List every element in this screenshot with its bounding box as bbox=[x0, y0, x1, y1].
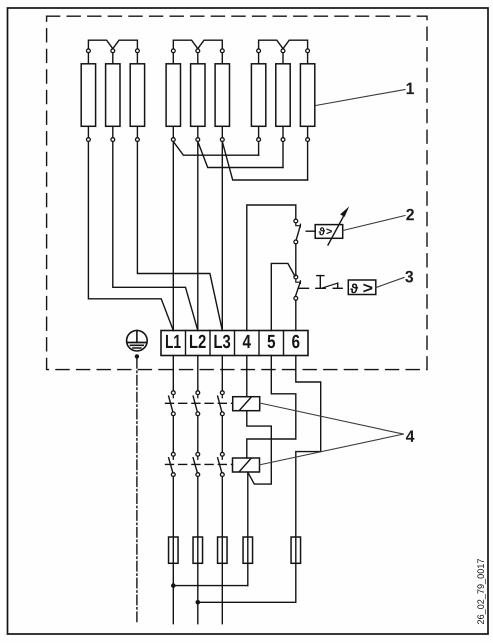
heating element E5 bbox=[191, 64, 205, 127]
wire top lead of element E7 bbox=[258, 53, 260, 64]
wire contact K2 down to bottom (L2 phase) bbox=[197, 477, 199, 624]
wire top lead of element E6 bbox=[221, 53, 223, 64]
fuse F2 bbox=[193, 537, 203, 563]
heating element E7 bbox=[251, 64, 265, 127]
terminal label L2 bbox=[190, 335, 206, 348]
node top terminal of element E5 bbox=[196, 49, 200, 53]
node top terminal of element E9 bbox=[306, 49, 310, 53]
wire top lead of element E5 bbox=[197, 53, 199, 64]
wire mechanical linkage of contactor K1 (dashed) bbox=[166, 402, 233, 404]
node top terminal of element E6 bbox=[220, 49, 224, 53]
wire contact K2 down to bottom (L3 phase) bbox=[221, 477, 223, 624]
wire bottom lead of element E3 bbox=[136, 126, 138, 137]
wire bottom lead of element E5 bbox=[197, 126, 199, 137]
thermostat switch contact S2 bbox=[294, 275, 309, 300]
terminal block X1 bbox=[161, 331, 308, 356]
wire element E4 to terminal L1 bbox=[172, 142, 174, 331]
heating element E9 bbox=[300, 64, 314, 127]
node bottom terminal of element E5 bbox=[196, 138, 200, 142]
wire switch S1 to node A bbox=[295, 244, 297, 275]
wire terminal 5 to coil K2 bbox=[247, 356, 296, 459]
wire top lead of element E1 bbox=[87, 53, 89, 64]
contactor contact K2a bbox=[169, 452, 176, 476]
terminal divider bbox=[283, 331, 285, 356]
wire top lead of element E2 bbox=[112, 53, 114, 64]
fuse F5 bbox=[291, 537, 301, 563]
wire leader line to label 1 bbox=[316, 90, 405, 106]
wire element E1 to terminal L1 bbox=[88, 142, 173, 331]
node top terminal of element E8 bbox=[281, 49, 285, 53]
wire bottom lead of element E4 bbox=[172, 126, 174, 137]
label 3 (safety thermostat) bbox=[405, 271, 413, 283]
wire leader line coil K1 to label 4 bbox=[260, 403, 404, 434]
wire top lead of element E8 bbox=[282, 53, 284, 64]
wire top lead of element E9 bbox=[307, 53, 309, 64]
label 4 (contactors) bbox=[406, 430, 414, 441]
terminal divider bbox=[234, 331, 236, 356]
node top terminal of element E7 bbox=[257, 49, 261, 53]
contactor contact K1b bbox=[193, 391, 200, 416]
wire bus element E4 to element E7 bbox=[173, 142, 258, 156]
wire terminal L2 to contact K1 bbox=[197, 356, 199, 391]
wire bottom lead of element E6 bbox=[221, 126, 223, 137]
wire terminal L3 to contact K1 bbox=[221, 356, 223, 391]
wire element E6 to terminal L3 bbox=[221, 142, 223, 331]
ground protective earth symbol bbox=[127, 330, 148, 351]
wire terminal 5 to node A bbox=[271, 263, 295, 330]
wire element E5 to terminal L2 bbox=[197, 142, 199, 331]
node earth junction dot bbox=[135, 354, 139, 358]
contactor contact K1c bbox=[218, 391, 225, 416]
node bottom terminal of element E1 bbox=[87, 138, 91, 142]
wire leader line to label 3 bbox=[376, 278, 404, 288]
wire contact K2 down to bottom (L1 phase) bbox=[172, 477, 174, 624]
wire bus element E6 to element E9 bbox=[222, 142, 307, 181]
node top terminal of element E2 bbox=[111, 49, 115, 53]
wire terminal 4 to coil K1 bbox=[246, 356, 248, 397]
thermostat B1 (adjustable control thermostat) bbox=[315, 206, 349, 245]
contactor contact K2c bbox=[218, 452, 225, 476]
terminal label 5 bbox=[268, 335, 276, 348]
heating element E4 bbox=[166, 64, 180, 127]
terminal label 6 bbox=[292, 335, 299, 348]
wire lead element E8 bbox=[282, 142, 284, 168]
node top terminal of element E1 bbox=[87, 49, 91, 53]
node junction dot on L1 phase bbox=[171, 583, 176, 588]
heating element E1 bbox=[81, 64, 95, 127]
terminal label 4 bbox=[243, 335, 251, 348]
wire terminal 6 to fuse F5 bbox=[296, 356, 321, 603]
contactor contact K1a bbox=[169, 391, 176, 416]
node bottom terminal of element E3 bbox=[136, 138, 140, 142]
wire contact K1 to contact K2 (L2 phase) bbox=[197, 416, 199, 453]
terminal label L3 bbox=[214, 335, 230, 348]
label 1 (heating elements) bbox=[407, 83, 414, 94]
wire PE line (dash-dot) bbox=[136, 359, 138, 624]
terminal divider bbox=[185, 331, 187, 356]
dashed enclosure border bbox=[47, 16, 427, 369]
wire top bridge for elements E7-E9 bbox=[259, 40, 308, 49]
node bottom terminal of element E8 bbox=[281, 138, 285, 142]
wire leader line coil K2 to label 4 bbox=[259, 434, 403, 465]
contactor coil K2 bbox=[233, 458, 260, 472]
wire coil K1 to junction below coil K2 bbox=[247, 411, 271, 484]
node bottom terminal of element E4 bbox=[171, 138, 175, 142]
wire top lead of element E3 bbox=[136, 53, 138, 64]
wire contact K1 to contact K2 (L1 phase) bbox=[172, 416, 174, 453]
wire top bridge for elements E4-E6 bbox=[173, 40, 222, 49]
wire coil K2 to fuse F4 bbox=[247, 472, 249, 585]
fuse F3 bbox=[218, 537, 228, 563]
wire bottom lead of element E8 bbox=[282, 126, 284, 137]
wire bottom lead of element E7 bbox=[258, 126, 260, 137]
wire leader line to label 2 bbox=[343, 216, 405, 231]
wire bottom lead of element E9 bbox=[307, 126, 309, 137]
wire lead element E7 bbox=[258, 142, 260, 156]
wire top lead of element E4 bbox=[172, 53, 174, 64]
node bottom terminal of element E2 bbox=[111, 138, 115, 142]
wire mechanical linkage of contactor K2 (dashed) bbox=[166, 463, 233, 465]
wire contact K1 to contact K2 (L3 phase) bbox=[221, 416, 223, 453]
wire fuse F4 branch to L1 phase bbox=[173, 585, 248, 587]
label document number 26_02_79_0017 bbox=[477, 559, 485, 624]
heating element E8 bbox=[276, 64, 290, 127]
terminal label L1 bbox=[166, 335, 181, 348]
fuse F1 bbox=[169, 537, 179, 563]
node bottom terminal of element E7 bbox=[257, 138, 261, 142]
heating element E3 bbox=[130, 64, 144, 127]
wire terminal L1 to contact K1 bbox=[172, 356, 174, 391]
wire bottom lead of element E2 bbox=[112, 126, 114, 137]
thermostat B2 (safety limiter, manual reset) bbox=[348, 280, 376, 295]
contactor contact K2b bbox=[193, 452, 200, 476]
wire top bridge for elements E1-E3 bbox=[88, 40, 137, 49]
heating element E2 bbox=[106, 64, 120, 127]
contactor coil K1 bbox=[233, 397, 260, 411]
wire bottom lead of element E1 bbox=[87, 126, 89, 137]
wire fuse F5 branch to L2 phase bbox=[198, 601, 296, 603]
fuse F4 bbox=[243, 537, 253, 563]
node junction dot on L2 phase bbox=[196, 600, 201, 605]
wire bus element E5 to element E8 bbox=[198, 142, 283, 168]
wire element E2 to terminal L2 bbox=[113, 142, 198, 331]
node top terminal of element E3 bbox=[136, 49, 140, 53]
wire terminal 4 to thermostat switch S1 bbox=[247, 205, 296, 331]
terminal divider bbox=[209, 331, 211, 356]
label 2 (control thermostat) bbox=[406, 209, 414, 221]
node bottom terminal of element E9 bbox=[306, 138, 310, 142]
node top terminal of element E4 bbox=[171, 49, 175, 53]
thermostat switch contact S1 bbox=[294, 219, 301, 244]
wire element E3 to terminal L3 bbox=[137, 142, 222, 331]
terminal divider bbox=[258, 331, 260, 356]
wire actuation link thermostat B1 to switch S1 bbox=[306, 230, 315, 232]
node bottom terminal of element E6 bbox=[220, 138, 224, 142]
manual reset actuator of thermostat B2 bbox=[316, 276, 342, 289]
wire switch S2 to terminal 6 bbox=[295, 300, 297, 330]
wire lead element E9 bbox=[307, 142, 309, 181]
heating element E6 bbox=[215, 64, 229, 127]
